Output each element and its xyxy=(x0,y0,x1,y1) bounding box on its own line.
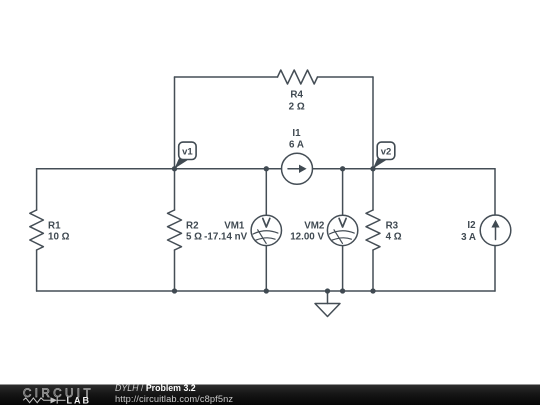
svg-text:DYLH / Problem 3.2: DYLH / Problem 3.2 xyxy=(115,383,196,393)
svg-text:-17.14 nV: -17.14 nV xyxy=(204,232,247,243)
wire R2 branch upper xyxy=(174,169,176,210)
resistor R2 xyxy=(168,210,182,250)
wire left branch lower xyxy=(36,250,38,291)
svg-text:http://circuitlab.com/c8pf5nz: http://circuitlab.com/c8pf5nz xyxy=(115,394,233,404)
svg-text:2 Ω: 2 Ω xyxy=(289,101,305,112)
svg-text:I2: I2 xyxy=(467,220,476,231)
wire VM2 branch lower xyxy=(342,246,344,291)
svg-text:I1: I1 xyxy=(292,128,301,139)
svg-text:VM1: VM1 xyxy=(224,221,245,232)
junction VM2 bottom xyxy=(340,288,345,293)
svg-text:R4: R4 xyxy=(290,90,303,101)
resistor R1 xyxy=(30,210,44,250)
node label v2 xyxy=(373,142,395,169)
wire top loop left vertical xyxy=(174,77,176,169)
node label v1 xyxy=(174,142,196,169)
svg-text:v1: v1 xyxy=(182,147,193,158)
svg-text:4 Ω: 4 Ω xyxy=(386,232,402,243)
svg-text:3 A: 3 A xyxy=(461,232,476,243)
junction VM1 bottom xyxy=(264,288,269,293)
svg-text:R2: R2 xyxy=(186,221,199,232)
logo resistor zigzag xyxy=(23,398,50,403)
voltmeter VM2 xyxy=(327,215,357,245)
current source I1 xyxy=(282,153,313,184)
wire VM2 branch upper xyxy=(342,169,344,215)
wire left branch upper xyxy=(36,169,38,210)
svg-text:12.00 V: 12.00 V xyxy=(290,232,324,243)
logo diode xyxy=(51,397,66,404)
wire R3 branch upper xyxy=(372,169,374,210)
junction v1 xyxy=(172,166,177,171)
junction VM2 top xyxy=(340,166,345,171)
wire R3 branch lower xyxy=(372,250,374,291)
wire main bus left xyxy=(37,168,282,170)
resistor R3 xyxy=(366,210,380,250)
svg-text:10 Ω: 10 Ω xyxy=(48,232,70,243)
wire I2 branch upper xyxy=(494,169,496,215)
svg-text:R1: R1 xyxy=(48,221,61,232)
wire I2 branch lower xyxy=(494,246,496,291)
svg-text:6 A: 6 A xyxy=(289,140,304,151)
current source I2 xyxy=(480,215,511,246)
svg-text:R3: R3 xyxy=(386,221,399,232)
junction R2 bottom xyxy=(172,288,177,293)
svg-text:5 Ω: 5 Ω xyxy=(186,232,202,243)
resistor R4 xyxy=(278,70,318,84)
junction R3 bottom xyxy=(370,288,375,293)
ground xyxy=(315,291,340,317)
wire top right horizontal xyxy=(318,76,374,78)
wire top loop right vertical xyxy=(372,77,374,169)
wire VM1 branch lower xyxy=(265,246,267,291)
voltmeter VM1 xyxy=(251,215,281,245)
svg-text:LAB: LAB xyxy=(67,395,90,405)
wire bottom bus xyxy=(37,290,495,292)
svg-text:v2: v2 xyxy=(381,147,392,158)
junction ground xyxy=(325,288,330,293)
junction v2 xyxy=(370,166,375,171)
junction VM1 top xyxy=(264,166,269,171)
wire VM1 branch upper xyxy=(265,169,267,215)
wire R2 branch lower xyxy=(174,250,176,291)
svg-text:VM2: VM2 xyxy=(304,221,325,232)
wire main bus right xyxy=(313,168,496,170)
wire top left horizontal xyxy=(175,76,278,78)
